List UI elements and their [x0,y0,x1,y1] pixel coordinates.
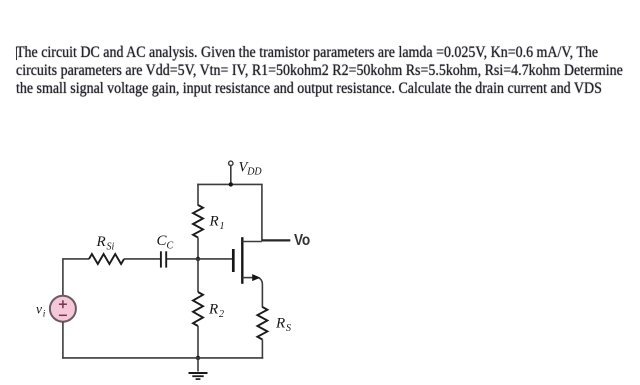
label vi [36,302,46,320]
wire source lead with arrow [242,274,262,307]
capacitor Cc [161,251,166,267]
source vi [50,296,76,322]
label VDD [239,160,263,178]
wire R1 top lead [197,184,199,206]
wire RSi to Cc [124,258,160,260]
wire drain lead [242,241,262,243]
svg-text:i: i [43,310,46,320]
label R1 [209,214,225,232]
node gate junction dot [196,257,200,261]
wire R2 bottom lead [197,326,199,358]
transistor Q1 gate bar [232,249,235,272]
wire VDD rail down to drain [261,184,263,241]
text cursor bar [16,47,17,61]
label Cc [157,233,174,252]
svg-text:DD: DD [246,167,262,178]
wire R2 top lead [197,259,199,292]
VDD terminal circle [229,161,233,165]
svg-text:R: R [208,302,218,318]
node bottom junction dot [196,356,200,360]
problem text [16,44,627,98]
resistor RS [257,307,267,340]
svg-text:C: C [167,241,174,252]
wire VDD stub [230,166,232,185]
wire bottom rail [62,357,263,359]
wire Vo lead [262,239,290,241]
svg-text:v: v [36,302,42,317]
svg-text:2: 2 [219,309,224,320]
label RS [275,316,291,335]
svg-text:R: R [96,234,106,250]
svg-text:Vo: Vo [294,232,310,249]
wire vi top lead [63,259,89,296]
svg-text:R: R [275,316,285,332]
transistor Q1 channel bar [241,237,243,284]
label Vo [294,232,310,249]
wire R1 bottom lead [197,238,199,260]
svg-text:1: 1 [220,221,225,232]
resistor RSi [89,254,124,264]
label RSi [96,234,115,253]
label R2 [208,302,224,321]
wire gate node to gate bar [167,258,233,260]
svg-text:S: S [286,323,291,334]
node junction dot at VDD rail [229,182,233,186]
resistor R1 [193,205,203,238]
svg-text:Si: Si [107,242,115,253]
resistor R2 [193,292,203,326]
wire top rail [197,183,263,185]
ground [189,358,208,379]
wire vi bottom lead [62,322,64,359]
wire RS bottom lead [261,340,263,359]
svg-text:R: R [209,214,219,230]
